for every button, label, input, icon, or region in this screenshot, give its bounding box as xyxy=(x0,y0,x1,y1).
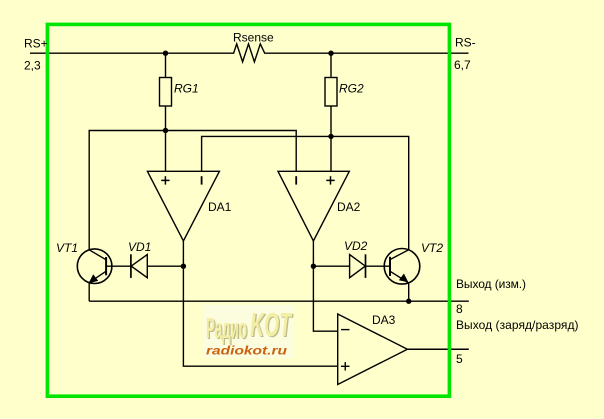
svg-text:radiokot.ru: radiokot.ru xyxy=(206,344,288,358)
label DA1 plus xyxy=(161,176,169,184)
wire RG2 to DA2 plus input xyxy=(330,106,332,171)
wire DA2 output node to VD2 xyxy=(313,265,349,267)
op-amp DA1 xyxy=(147,171,219,241)
transistor VT1 xyxy=(77,249,112,284)
wire output izm rail xyxy=(89,300,469,302)
svg-text:5: 5 xyxy=(456,352,463,366)
node VD1 DA1 output xyxy=(181,264,186,269)
wire DA1 output xyxy=(183,241,337,366)
wire VT2 emitter xyxy=(408,283,410,301)
wire VT1 emitter xyxy=(88,283,90,302)
resistor RG2 xyxy=(325,78,337,107)
DA2 inverting input bar xyxy=(295,176,297,184)
svg-text:RS+: RS+ xyxy=(24,37,48,51)
wire top rail with Rsense zigzag xyxy=(30,44,469,62)
node RG1 bottom xyxy=(163,128,168,133)
transistor VT2 xyxy=(384,248,420,284)
node VD2 DA2 output xyxy=(311,264,316,269)
svg-text:DA1: DA1 xyxy=(208,200,232,214)
svg-text:DA3: DA3 xyxy=(372,313,396,327)
DA1 inverting input bar xyxy=(201,176,203,184)
node RG2 bottom xyxy=(328,134,333,139)
wire line B horizontal xyxy=(202,136,409,249)
svg-text:KOT: KOT xyxy=(250,306,293,343)
svg-text:VT2: VT2 xyxy=(421,241,443,255)
op-amp DA3 xyxy=(338,314,408,385)
node VT2 emitter rail xyxy=(406,299,411,304)
svg-text:Выход (изм.): Выход (изм.) xyxy=(456,277,526,291)
green frame xyxy=(47,24,449,396)
svg-text:8: 8 xyxy=(456,302,463,316)
svg-text:VD2: VD2 xyxy=(344,239,368,253)
resistor RG1 xyxy=(160,78,172,107)
watermark Радио xyxy=(206,313,248,346)
DA3 plus sign xyxy=(341,365,350,367)
wire VD2 to VT2 base xyxy=(366,265,391,267)
wire RG1 vertical xyxy=(165,53,167,77)
svg-text:VD1: VD1 xyxy=(128,240,151,254)
wire line A horizontal xyxy=(89,131,296,250)
op-amp DA2 xyxy=(278,171,349,241)
svg-text:DA2: DA2 xyxy=(337,200,361,214)
wire VT1 base to VD1 xyxy=(106,265,131,267)
svg-text:Выход (заряд/разряд): Выход (заряд/разряд) xyxy=(456,318,579,332)
wire RG1 to DA1 plus input xyxy=(165,106,167,171)
node RG1 top xyxy=(163,51,168,56)
svg-text:6,7: 6,7 xyxy=(454,58,471,72)
watermark box xyxy=(204,305,293,358)
wire RG2 vertical xyxy=(330,53,332,77)
node RG2 top xyxy=(328,51,333,56)
label DA2 plus xyxy=(326,176,334,184)
VT2 emitter arrow xyxy=(399,274,409,283)
wire DA2 output xyxy=(313,241,337,331)
svg-text:RG2: RG2 xyxy=(339,82,364,96)
svg-text:2,3: 2,3 xyxy=(24,59,41,73)
watermark KOT xyxy=(250,306,294,344)
wire VD1 to DA1 output node xyxy=(147,265,183,267)
svg-text:Rsense: Rsense xyxy=(233,31,274,45)
diode VD2 xyxy=(350,255,366,278)
wire DA3 output xyxy=(407,348,468,350)
svg-text:RS-: RS- xyxy=(455,36,476,50)
VT1 emitter arrow xyxy=(89,274,99,283)
svg-text:RG1: RG1 xyxy=(174,82,199,96)
DA3 minus input label xyxy=(341,329,350,331)
svg-text:Радио: Радио xyxy=(206,313,247,345)
diode VD1 xyxy=(130,254,132,278)
svg-text:VT1: VT1 xyxy=(56,241,78,255)
